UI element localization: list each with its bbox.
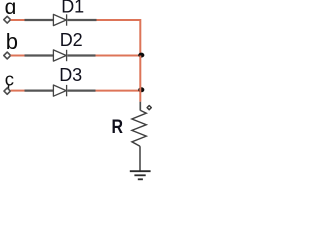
ground: [130, 171, 151, 179]
wire D2 to bus (salmon): [96, 55, 141, 57]
wire D1 cathode (dark): [67, 19, 96, 21]
diode D1: [53, 14, 66, 25]
terminal b: [4, 52, 11, 59]
pin marker diamond: [147, 106, 151, 110]
wire resistor bottom lead (dark): [139, 146, 141, 170]
svg-text:D1: D1: [61, 0, 84, 17]
resistor R body: [132, 110, 146, 146]
wire D3 cathode (dark): [67, 89, 95, 91]
label c tail: [7, 85, 9, 90]
terminal c: [4, 88, 10, 94]
wire b to diode D2 (dark): [25, 54, 55, 56]
junction node D3/bus: [138, 87, 144, 92]
svg-text:c: c: [5, 69, 14, 90]
svg-text:D2: D2: [60, 30, 83, 50]
svg-text:D3: D3: [59, 65, 82, 85]
wire D3 to bus (salmon): [96, 90, 141, 92]
wire a terminal stub (salmon): [11, 19, 25, 21]
svg-text:R: R: [112, 116, 124, 138]
wire a to diode D1 (dark): [25, 19, 55, 21]
junction node D2/bus: [138, 53, 144, 58]
wire c to diode D3 (dark): [25, 89, 55, 91]
wire bus vertical (salmon): [139, 56, 141, 102]
diode D2: [53, 50, 66, 61]
wire D2 cathode (dark): [67, 54, 95, 56]
diode D3: [53, 85, 66, 96]
wire D1 to bus corner (salmon): [97, 20, 141, 56]
wire resistor top lead (dark): [139, 102, 141, 111]
svg-text:b: b: [6, 29, 18, 54]
wire b terminal stub (salmon): [11, 55, 25, 57]
terminal a: [4, 16, 11, 23]
wire c terminal stub (salmon): [11, 90, 25, 92]
